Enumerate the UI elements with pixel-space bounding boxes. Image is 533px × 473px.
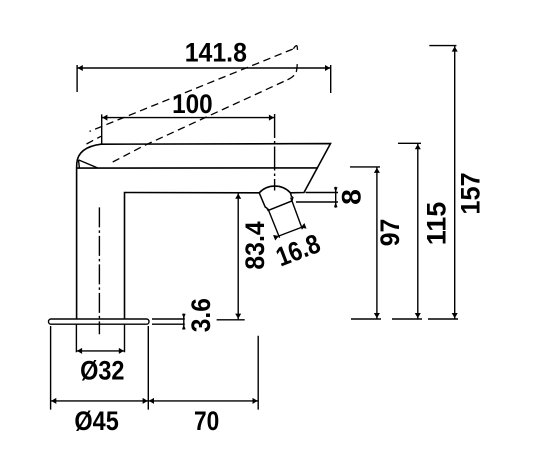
lever raised (dashed) upper edge: [90, 49, 294, 132]
dim 97 line: [376, 167, 378, 319]
aerator outlet (tilted): [259, 193, 293, 211]
dim O45 line: [51, 400, 149, 402]
svg-text:97: 97: [376, 219, 405, 247]
base flange: [49, 319, 150, 324]
dim 3.6 bar with outside arrows: [183, 314, 185, 330]
dim 115 extension stubs: [392, 143, 422, 319]
dim 3.6 extension lines: [152, 319, 185, 324]
centerline of body (dash-dot): [98, 207, 100, 334]
lever raised (dashed) lower edge: [113, 80, 287, 162]
dim 8 extension lines: [296, 193, 338, 203]
svg-text:8: 8: [336, 189, 366, 205]
dim 97 extension stubs: [350, 167, 381, 319]
dim 141.8 line: [77, 67, 331, 69]
centerline of aerator (dash-dot): [274, 114, 276, 191]
dim 100 extension stub: [101, 114, 103, 143]
lever closed underside slant: [79, 160, 98, 168]
svg-text:Ø45: Ø45: [74, 406, 118, 436]
dim 83.4 line: [237, 193, 239, 319]
dim 157 extension stubs: [428, 46, 458, 319]
lever raised (dashed) rear edge: [87, 136, 102, 144]
dim O32 line: [76, 350, 124, 352]
dim 70 line: [148, 400, 258, 402]
faucet body outline: [77, 144, 331, 319]
dim 8 line with outside arrows: [335, 187, 337, 208]
dim O45/70 extension lines: [51, 326, 259, 410]
dim 83.4 bottom stub: [217, 319, 245, 321]
dim 115 line: [417, 144, 419, 319]
svg-text:70: 70: [194, 406, 219, 436]
svg-text:Ø32: Ø32: [80, 356, 124, 386]
dim 100 line: [102, 117, 275, 119]
svg-text:115: 115: [422, 202, 452, 246]
dim 16.8 line: [279, 228, 302, 237]
lever raised (dashed) tip cap: [287, 46, 298, 80]
dim 16.8 extension legs: [268, 198, 303, 238]
spout body top edge: [77, 167, 318, 169]
lever closed tip face: [78, 160, 81, 168]
dim O32 extension lines (shank): [76, 325, 124, 353]
dim 141.8 extension stubs: [77, 65, 331, 93]
svg-text:141.8: 141.8: [185, 38, 247, 67]
svg-text:3.6: 3.6: [187, 298, 216, 332]
svg-text:100: 100: [172, 90, 213, 119]
svg-text:157: 157: [455, 172, 486, 214]
dim 157 line: [454, 46, 456, 319]
svg-text:83.4: 83.4: [241, 221, 270, 270]
